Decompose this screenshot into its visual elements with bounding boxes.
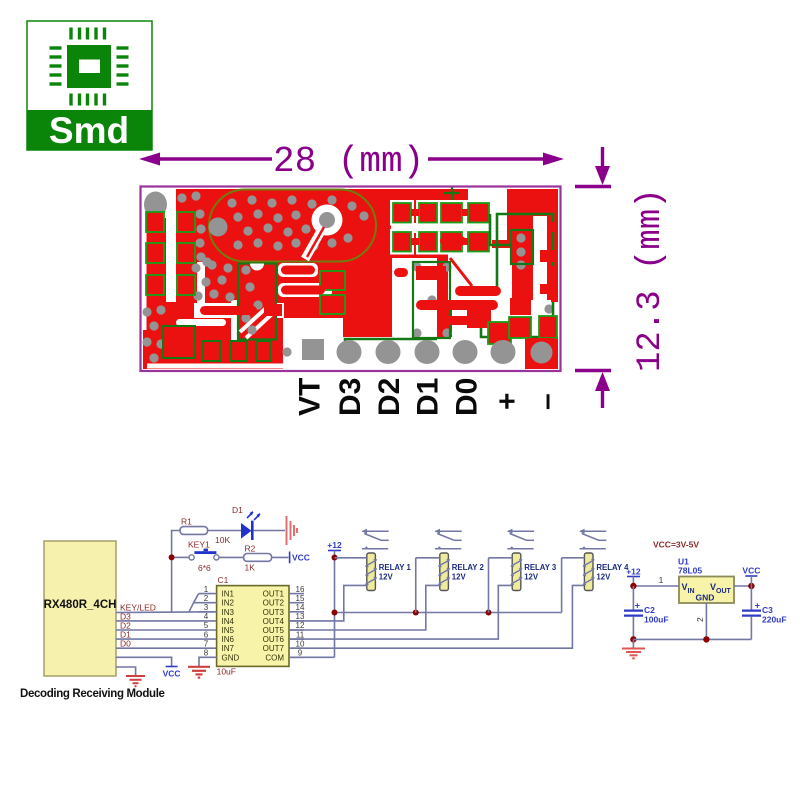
wire +12 to relay 3 coil	[489, 557, 513, 559]
svg-text:Decoding Receiving Module: Decoding Receiving Module	[20, 688, 165, 700]
wire +12 rail	[335, 612, 562, 614]
svg-text:IN6: IN6	[222, 635, 235, 644]
svg-text:9: 9	[298, 649, 303, 658]
svg-text:12V: 12V	[596, 573, 611, 582]
PCB module photo	[141, 186, 561, 371]
wire D1 to ground	[254, 530, 285, 532]
power VCC R2	[289, 552, 291, 564]
svg-text:220uF: 220uF	[762, 615, 787, 625]
wire to R1	[172, 531, 180, 558]
power VCC module	[166, 666, 178, 668]
wire VCC pin	[116, 657, 172, 666]
svg-text:100uF: 100uF	[644, 615, 669, 625]
svg-text:–: –	[530, 393, 563, 410]
svg-text:VCC: VCC	[742, 566, 760, 576]
wire U1 out	[734, 585, 751, 587]
relay RELAY 4	[580, 531, 607, 549]
svg-text:6*6: 6*6	[198, 563, 211, 573]
node KEY/LED vertical	[171, 557, 173, 612]
svg-text:C3: C3	[762, 605, 773, 615]
module RX480R_4CH	[44, 541, 116, 676]
svg-text:Smd: Smd	[49, 110, 129, 151]
resistor R1	[180, 527, 208, 535]
capacitor C3	[750, 586, 752, 610]
svg-text:RELAY 1: RELAY 1	[379, 563, 412, 572]
svg-text:IN2: IN2	[222, 599, 235, 608]
wire +12 to relay 1 coil	[335, 557, 367, 559]
svg-text:IN5: IN5	[222, 626, 235, 635]
relay RELAY 1	[362, 531, 389, 549]
wire relay 3 to OUT pin	[289, 585, 512, 639]
svg-text:7: 7	[204, 639, 209, 648]
svg-text:RELAY 2: RELAY 2	[452, 563, 485, 572]
svg-text:RELAY 4: RELAY 4	[596, 563, 629, 572]
svg-text:OUT3: OUT3	[263, 608, 285, 617]
svg-text:GND: GND	[696, 593, 715, 603]
dimension arrow 28mm	[152, 157, 550, 160]
wire relay 3 +12 vertical	[488, 558, 490, 613]
pads D3 D2 D1 D0 +	[337, 340, 362, 364]
svg-text:IN3: IN3	[222, 608, 235, 617]
svg-text:OUT4: OUT4	[263, 617, 285, 626]
svg-text:IN7: IN7	[222, 644, 235, 653]
svg-text:OUT5: OUT5	[263, 626, 285, 635]
svg-text:13: 13	[296, 612, 305, 621]
svg-text:14: 14	[296, 603, 305, 612]
SMD logo box	[27, 21, 152, 151]
IC C1 pins	[199, 593, 217, 595]
svg-text:12.3 (mm): 12.3 (mm)	[632, 188, 670, 372]
wire relay 2 to OUT pin	[289, 585, 440, 630]
svg-text:D2: D2	[373, 378, 406, 416]
svg-text:10uF: 10uF	[217, 667, 236, 677]
wire relay 4 to OUT pin	[289, 585, 584, 648]
svg-text:VCC: VCC	[292, 553, 310, 563]
svg-text:+12: +12	[327, 540, 342, 550]
svg-text:OUT7: OUT7	[263, 644, 285, 653]
ground C1	[188, 667, 210, 678]
svg-text:3: 3	[204, 603, 209, 612]
svg-text:10: 10	[296, 639, 305, 648]
ground C2	[622, 649, 645, 659]
svg-text:OUT: OUT	[716, 588, 732, 595]
svg-text:R2: R2	[245, 544, 256, 554]
relay RELAY 3	[507, 531, 534, 549]
svg-text:12: 12	[296, 621, 305, 630]
svg-text:D1: D1	[232, 505, 243, 515]
junction dots	[332, 555, 338, 561]
wire R2 to VCC	[272, 556, 289, 558]
svg-text:IN1: IN1	[222, 590, 235, 599]
svg-text:8: 8	[204, 649, 209, 658]
wire module gnd	[116, 667, 136, 675]
svg-text:6: 6	[204, 630, 209, 639]
IC gnd wire	[199, 657, 217, 666]
svg-text:16: 16	[296, 585, 305, 594]
svg-text:5: 5	[204, 621, 209, 630]
svg-text:1K: 1K	[245, 563, 256, 573]
svg-text:12V: 12V	[452, 573, 467, 582]
pad minus	[526, 338, 557, 367]
wire KEY1 to R2	[219, 556, 244, 558]
svg-text:D0: D0	[451, 378, 484, 416]
wire ground rail	[633, 638, 751, 640]
svg-text:GND: GND	[222, 653, 240, 662]
svg-text:R1: R1	[181, 517, 192, 527]
wire D3	[116, 620, 217, 622]
svg-text:1: 1	[659, 575, 664, 585]
wire R1 to D1	[208, 530, 241, 532]
wire U1 gnd pin 2	[705, 603, 707, 639]
svg-text:+: +	[491, 392, 524, 410]
svg-text:RELAY 3: RELAY 3	[524, 563, 557, 572]
LED D1	[241, 523, 252, 539]
IC C1	[217, 586, 289, 667]
svg-text:RX480R_4CH: RX480R_4CH	[44, 599, 117, 611]
wire D0	[116, 647, 217, 649]
svg-text:+: +	[755, 601, 760, 611]
wire pin9 to +12	[289, 656, 335, 658]
wire D1	[116, 638, 217, 640]
wire +12 to relay 4 coil	[562, 557, 585, 559]
wire KEY/LED	[116, 611, 217, 614]
svg-text:12V: 12V	[524, 573, 539, 582]
svg-text:C2: C2	[644, 605, 655, 615]
svg-text:C1: C1	[218, 575, 229, 585]
svg-text:OUT6: OUT6	[263, 635, 285, 644]
svg-text:1: 1	[204, 585, 209, 594]
svg-text:IN4: IN4	[222, 617, 235, 626]
wire relay 1 to OUT pin	[289, 585, 367, 621]
ground module	[126, 676, 145, 686]
relay RELAY 2	[435, 531, 462, 549]
svg-text:4: 4	[204, 612, 209, 621]
svg-text:COM: COM	[265, 653, 284, 662]
switch KEY1	[189, 555, 194, 560]
svg-text:10K: 10K	[215, 535, 230, 545]
svg-text:11: 11	[296, 630, 305, 639]
wire +12 vertical	[334, 551, 336, 658]
dimension arrow 12.3mm	[575, 147, 611, 408]
svg-text:OUT1: OUT1	[263, 590, 285, 599]
pin1-3 chain diagonals	[194, 594, 199, 603]
pad VT	[302, 339, 324, 360]
svg-text:VT: VT	[294, 378, 327, 416]
svg-text:2: 2	[695, 617, 705, 622]
wire D2	[116, 629, 217, 631]
svg-text:15: 15	[296, 594, 305, 603]
svg-text:IN: IN	[688, 588, 695, 595]
ground D1 (rotated)	[287, 516, 298, 545]
wire junction to KEY1	[175, 556, 189, 558]
svg-text:KEY1: KEY1	[188, 540, 210, 550]
svg-text:12V: 12V	[379, 573, 394, 582]
svg-text:VCC=3V-5V: VCC=3V-5V	[653, 540, 699, 550]
svg-text:D0: D0	[120, 639, 131, 649]
svg-text:D1: D1	[412, 378, 445, 416]
svg-text:D3: D3	[334, 378, 367, 416]
svg-text:2: 2	[204, 594, 209, 603]
resistor R2	[244, 554, 272, 562]
wire pin1	[633, 585, 679, 587]
svg-text:78L05: 78L05	[678, 566, 702, 576]
wire +12 to relay 2 coil	[416, 557, 440, 559]
capacitor C2	[632, 586, 634, 610]
svg-text:VCC: VCC	[163, 669, 181, 679]
wire relay 4 +12 vertical	[561, 558, 563, 613]
wire relay 2 +12 vertical	[415, 558, 417, 613]
junction KEY1	[169, 554, 175, 560]
svg-text:+: +	[635, 601, 640, 611]
svg-text:OUT2: OUT2	[263, 599, 285, 608]
svg-text:28 (mm): 28 (mm)	[273, 141, 424, 182]
svg-text:+12: +12	[626, 567, 641, 577]
